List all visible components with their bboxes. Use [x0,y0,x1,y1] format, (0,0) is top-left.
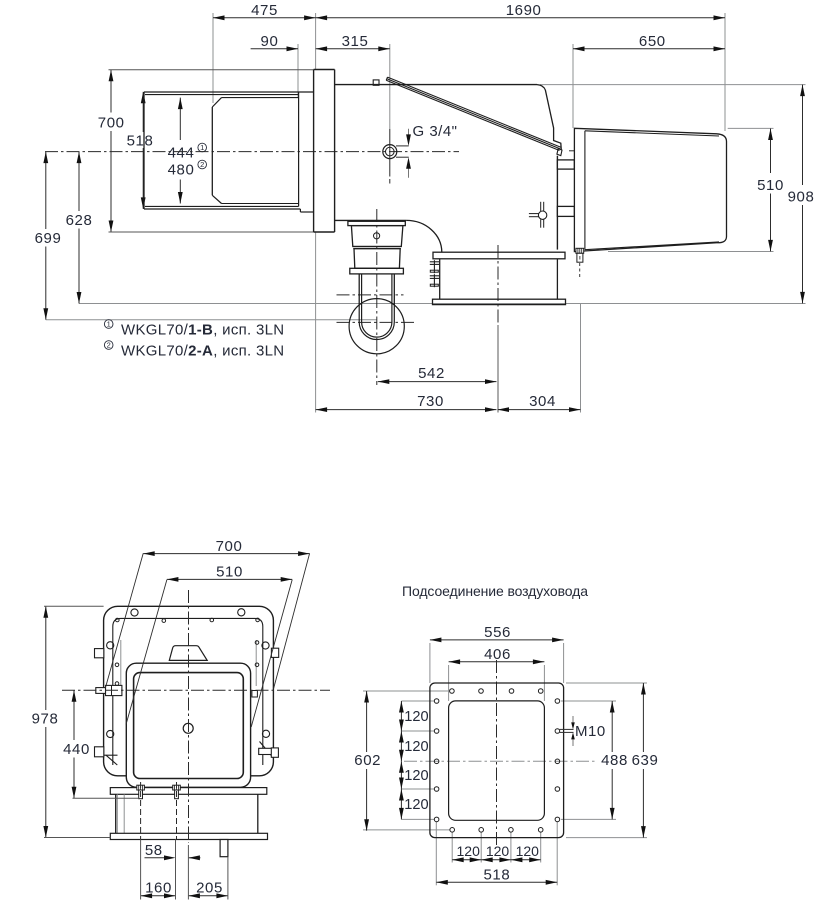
svg-text:Подсоединение воздуховода: Подсоединение воздуховода [402,583,588,599]
svg-text:908: 908 [788,189,815,206]
svg-text:488: 488 [601,752,628,769]
svg-text:518: 518 [483,866,510,883]
svg-text:2: 2 [107,341,111,350]
svg-text:700: 700 [216,538,243,555]
svg-text:699: 699 [35,230,62,247]
svg-text:730: 730 [417,393,444,410]
svg-text:1: 1 [200,143,204,152]
svg-text:406: 406 [484,646,511,663]
svg-text:315: 315 [342,33,369,50]
svg-text:510: 510 [757,177,784,194]
svg-text:602: 602 [354,752,381,769]
svg-text:G 3/4": G 3/4" [413,123,458,140]
svg-text:120: 120 [404,709,428,725]
svg-text:120: 120 [516,843,540,859]
svg-text:WKGL70/2-A, исп. 3LN: WKGL70/2-A, исп. 3LN [121,343,284,360]
svg-text:475: 475 [251,2,278,19]
svg-text:1690: 1690 [506,2,542,19]
svg-text:2: 2 [200,160,204,169]
svg-text:M10: M10 [575,723,606,740]
svg-text:480: 480 [168,161,195,178]
svg-text:440: 440 [63,741,90,758]
svg-text:700: 700 [98,115,125,132]
svg-text:978: 978 [32,711,59,728]
svg-text:1: 1 [107,320,111,329]
svg-text:556: 556 [484,624,511,641]
svg-text:120: 120 [404,768,428,784]
svg-text:120: 120 [404,739,428,755]
svg-text:542: 542 [418,365,445,382]
svg-text:650: 650 [639,33,666,50]
svg-text:WKGL70/1-B, исп. 3LN: WKGL70/1-B, исп. 3LN [121,322,284,339]
svg-text:120: 120 [457,843,481,859]
svg-text:518: 518 [127,132,154,149]
svg-text:444: 444 [168,144,195,161]
svg-text:628: 628 [66,212,93,229]
svg-text:639: 639 [632,752,659,769]
svg-text:120: 120 [486,843,510,859]
svg-text:90: 90 [261,33,279,50]
svg-text:510: 510 [216,564,243,581]
svg-text:205: 205 [196,880,223,897]
svg-text:58: 58 [145,842,163,859]
svg-text:304: 304 [529,393,556,410]
svg-text:120: 120 [404,797,428,813]
svg-text:160: 160 [145,880,172,897]
